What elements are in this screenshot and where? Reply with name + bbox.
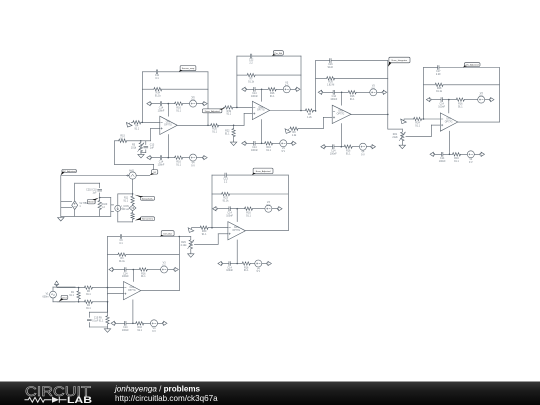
svg-text:DC_Adjusted: DC_Adjusted — [63, 170, 77, 173]
label Error_Adjusted — [253, 168, 273, 174]
op-amp OA6 — [160, 116, 178, 134]
shunt resistor R22 to ground — [233, 125, 235, 128]
stage5 output — [246, 230, 289, 232]
svg-text:100nF: 100nF — [330, 152, 337, 155]
svg-text:1.2k: 1.2k — [292, 134, 297, 137]
sensor inner top wire — [75, 182, 100, 184]
svg-text:9 V: 9 V — [191, 164, 195, 167]
stage3 V- decoupling row — [340, 124, 342, 147]
svg-text:91.1: 91.1 — [244, 269, 249, 272]
svg-text:9 V: 9 V — [285, 84, 289, 87]
label Error_Integrator — [389, 57, 410, 63]
capacitor C9 — [120, 235, 121, 239]
svg-text:91nF: 91nF — [328, 66, 334, 69]
supply decoupling row: net flag, bypass capacitor, resistor, source at y=154.3 — [433, 153, 441, 155]
op-amp OA10 — [440, 113, 458, 131]
supply decoupling row: net flag, bypass capacitor, resistor, source at y=103.6 — [150, 103, 160, 105]
svg-text:SensorCtrl+: SensorCtrl+ — [142, 197, 154, 200]
svg-text:212k: 212k — [392, 136, 398, 139]
capacitor C10 — [99, 183, 101, 188]
svg-text:91.1k: 91.1k — [436, 90, 443, 93]
svg-text:Sensor_amp: Sensor_amp — [182, 67, 195, 70]
label Therm1 — [87, 199, 95, 204]
label S1 box — [152, 170, 158, 175]
svg-text:OP77G: OP77G — [164, 125, 172, 127]
dependent source B1 — [72, 201, 78, 210]
svg-text:91.1k: 91.1k — [223, 199, 230, 202]
stage1 inverting input: ground + resistor R4 — [131, 121, 133, 123]
control network top wire — [118, 193, 133, 195]
svg-text:9 V: 9 V — [191, 99, 195, 102]
svg-text:1.2k: 1.2k — [307, 116, 312, 119]
svg-text:OP77G: OP77G — [128, 290, 136, 292]
svg-text:91.1: 91.1 — [124, 201, 129, 203]
stage2 inverting input resistor R19 — [223, 106, 225, 108]
capacitor C12 — [250, 54, 251, 58]
resistor R12 — [131, 213, 134, 220]
svg-text:OP77G: OP77G — [445, 121, 453, 123]
svg-text:91.1: 91.1 — [346, 152, 351, 155]
svg-text:100nF: 100nF — [330, 98, 337, 101]
svg-text:91.1: 91.1 — [226, 113, 231, 116]
capacitor C11 — [156, 70, 157, 74]
stage4 V- decoupling row — [448, 131, 450, 154]
svg-text:OA9: OA9 — [338, 110, 343, 113]
svg-text:91.1k: 91.1k — [155, 95, 162, 98]
svg-text:91.1: 91.1 — [454, 160, 459, 163]
svg-text:91.1: 91.1 — [225, 132, 230, 135]
svg-text:91.1: 91.1 — [141, 275, 146, 278]
stage3 + input: resistor to ground — [323, 116, 332, 118]
potentiometer R5 with cap C13 to ground — [140, 141, 142, 143]
svg-text:9 V: 9 V — [372, 87, 376, 90]
behavioral source B1 stubs — [61, 201, 72, 203]
stage 4 feedback network — [424, 67, 438, 69]
capacitor C13b — [225, 173, 226, 177]
svg-text:100nF: 100nF — [251, 95, 258, 98]
op-amp OA11 — [228, 222, 246, 240]
capacitor C16 — [330, 59, 331, 63]
svg-text:Drive_Adjusted: Drive_Adjusted — [205, 110, 221, 113]
label SensorCtrl+ — [141, 196, 155, 200]
stage1 non-inverting input network — [151, 127, 160, 129]
control bottom wire — [118, 221, 133, 223]
stage1 V- decoupling row — [167, 135, 169, 158]
stage4 output — [458, 121, 500, 123]
svg-text:91.1: 91.1 — [69, 294, 74, 297]
svg-text:100nF: 100nF — [226, 269, 233, 272]
stage6 V- decoupling row — [132, 300, 134, 324]
stage2 output chain — [270, 110, 306, 112]
svg-text:Error_Integrator: Error_Integrator — [392, 59, 408, 62]
stage5 inverting input: resistor to ground — [192, 227, 201, 229]
svg-text:100nF: 100nF — [122, 275, 129, 278]
svg-text:100nF: 100nF — [122, 329, 129, 332]
label Dim_Bal — [161, 231, 174, 236]
svg-text:9 V: 9 V — [162, 265, 166, 268]
svg-text:100nF: 100nF — [438, 105, 445, 108]
sensor block: label DC_Adjusted — [62, 170, 77, 173]
ammeter riser to control pot — [132, 179, 134, 194]
resistor R3 — [118, 253, 126, 256]
supply decoupling row: net flag, bypass capacitor, resistor, source at y=157.6 — [150, 157, 160, 159]
svg-text:OP77G: OP77G — [337, 114, 345, 116]
stage6 output — [141, 290, 180, 292]
svg-text:600m: 600m — [43, 296, 49, 299]
right loop with sense stubs — [100, 197, 111, 199]
label Drive_Adjusted — [202, 109, 222, 113]
current source I_CON — [117, 194, 119, 205]
svg-text:2.2F: 2.2F — [436, 73, 441, 76]
svg-text:C15 R9: C15 R9 — [94, 318, 103, 320]
supply decoupling row: net flag, bypass capacitor, resistor, source at y=269.5 — [112, 269, 124, 271]
op-amp OA9 — [332, 105, 351, 123]
wire to sensor node — [114, 141, 116, 165]
supply decoupling row: net flag, bypass capacitor, resistor, source at y=99.6 — [430, 99, 441, 101]
svg-text:Therm1: Therm1 — [88, 201, 96, 204]
svg-text:OP77G: OP77G — [257, 110, 265, 112]
svg-text:101k: 101k — [131, 147, 137, 150]
logo resistor + diode symbol — [25, 397, 67, 403]
svg-text:91.1: 91.1 — [350, 98, 355, 101]
op-amp OA1 — [124, 282, 141, 300]
svg-text:9 V: 9 V — [267, 204, 271, 207]
svg-text:1uF: 1uF — [150, 147, 155, 150]
stage4 inverting input: resistor to ground — [404, 118, 414, 120]
supply decoupling row: net flag, bypass capacitor, resistor, source at y=143.3 — [245, 142, 253, 144]
resistor R7 — [247, 73, 255, 76]
svg-text:91.1: 91.1 — [415, 124, 420, 127]
label Vin1 — [61, 295, 68, 299]
svg-text:SensorCtrl-: SensorCtrl- — [142, 218, 153, 221]
stage 5 feedback network — [212, 174, 225, 176]
ammeter AM1 — [129, 172, 136, 179]
sense diamond — [129, 205, 136, 211]
svg-text:91.1: 91.1 — [86, 307, 91, 310]
stage 2 feedback network — [237, 55, 250, 57]
resistor R28 — [435, 83, 443, 86]
label Sensor_amp — [180, 66, 196, 71]
svg-text:Error_Adjusted: Error_Adjusted — [256, 170, 271, 173]
svg-text:9 V: 9 V — [469, 161, 473, 164]
input source V1 — [50, 291, 57, 298]
svg-text:91.1: 91.1 — [202, 233, 207, 236]
svg-text:91.1: 91.1 — [176, 109, 181, 112]
svg-text:91.1: 91.1 — [266, 149, 271, 152]
stage2 V- decoupling row — [261, 120, 263, 144]
svg-text:0.1uF 91.1: 0.1uF 91.1 — [92, 321, 104, 323]
ground — [58, 216, 64, 221]
op-amp OA7 — [252, 101, 269, 119]
svg-text:100nF: 100nF — [158, 109, 165, 112]
stage1 output chain — [177, 124, 210, 126]
svg-text:1uF: 1uF — [93, 192, 98, 194]
svg-text:9 V: 9 V — [257, 270, 261, 273]
thermistor R100 — [99, 198, 101, 201]
svg-text:LAB: LAB — [67, 394, 92, 405]
potentiometer R29 — [190, 237, 192, 240]
svg-text:91.1: 91.1 — [458, 105, 463, 108]
label Pre_Bal — [273, 51, 283, 55]
supply decoupling row: net flag, bypass capacitor, resistor, source at y=89.3 — [245, 88, 253, 90]
supply decoupling row: net flag, bypass capacitor, resistor, source at y=146.7 — [324, 146, 332, 148]
svg-text:91.1: 91.1 — [120, 137, 125, 140]
svg-text:91.1: 91.1 — [137, 329, 142, 332]
sensor left vertical to ground — [60, 176, 62, 217]
svg-text:9 V: 9 V — [282, 150, 286, 153]
capacitor C17 — [438, 66, 439, 70]
svg-text:OA6: OA6 — [166, 121, 171, 124]
sensor bottom rail — [61, 215, 111, 217]
net flag up — [55, 281, 59, 286]
svg-text:Pre_Bal: Pre_Bal — [274, 52, 282, 55]
stage 1 feedback network — [142, 71, 156, 73]
svg-text:OA8: OA8 — [258, 106, 263, 109]
RC network to ground — [107, 302, 109, 312]
stage6 + input wire — [108, 293, 124, 295]
svg-text:9 V: 9 V — [479, 95, 483, 98]
svg-text:OA7: OA7 — [446, 117, 451, 120]
sensor top wire with ammeter — [61, 175, 129, 177]
svg-text:100nF: 100nF — [158, 163, 165, 166]
input divider resistor R1 — [78, 288, 80, 291]
svg-text:100nF: 100nF — [251, 149, 258, 152]
supply decoupling row: net flag, bypass capacitor, resistor, source at y=323.3 — [114, 322, 124, 324]
stage 3 feedback network — [316, 60, 330, 62]
svg-text:1.82 M: 1.82 M — [327, 84, 334, 87]
stage3 output to pot — [351, 113, 388, 115]
svg-text:91.1k: 91.1k — [119, 260, 126, 263]
potentiometer R21 — [401, 129, 403, 132]
stage 6 feedback network — [108, 236, 121, 238]
stage6 inverting input wire — [57, 287, 84, 289]
supply decoupling row: net flag, bypass capacitor, resistor, source at y=92.3 — [322, 91, 333, 93]
stage5 + input from pot — [218, 233, 228, 235]
svg-text:500 uA: 500 uA — [121, 208, 129, 211]
svg-text:91.1: 91.1 — [212, 131, 217, 134]
svg-text:100nF: 100nF — [226, 214, 233, 217]
label DC_Adjusted — [464, 63, 480, 67]
svg-text:jonhayenga / problems: jonhayenga / problems — [114, 385, 201, 394]
supply decoupling row: net flag, bypass capacitor, resistor, source at y=263.5 — [221, 263, 228, 265]
svg-text:2.12k: 2.12k — [181, 244, 188, 247]
label SensorCtrl- — [141, 217, 155, 221]
svg-text:91.1: 91.1 — [86, 293, 91, 296]
svg-text:91.1k: 91.1k — [248, 80, 255, 83]
svg-text:DC_Adjusted: DC_Adjusted — [466, 64, 480, 67]
supply decoupling row: net flag, bypass capacitor, resistor, source at y=208.7 — [216, 208, 229, 210]
svg-text:Dim_Bal: Dim_Bal — [163, 233, 172, 235]
stage5 V- decoupling row — [236, 240, 238, 264]
svg-text:OA1: OA1 — [129, 286, 134, 289]
svg-text:9 V: 9 V — [152, 330, 156, 333]
svg-text:OA5: OA5 — [234, 226, 239, 229]
svg-text:91.1: 91.1 — [270, 95, 275, 98]
svg-text:AM1: AM1 — [129, 170, 135, 173]
svg-text:9 V: 9 V — [361, 153, 365, 156]
resistor R26 — [327, 77, 335, 80]
control chain R11 — [132, 194, 134, 196]
svg-text:91.1: 91.1 — [246, 214, 251, 217]
svg-text:OP77G: OP77G — [232, 230, 240, 232]
svg-text:C210 C10: C210 C10 — [86, 189, 97, 191]
svg-text:91.1: 91.1 — [176, 163, 181, 166]
svg-text:100nF: 100nF — [439, 160, 446, 163]
resistor R14 — [154, 88, 162, 91]
svg-text:91.1: 91.1 — [134, 128, 139, 131]
svg-text:http://circuitlab.com/ck3q67a: http://circuitlab.com/ck3q67a — [115, 394, 218, 403]
resistor R23 — [222, 192, 230, 195]
